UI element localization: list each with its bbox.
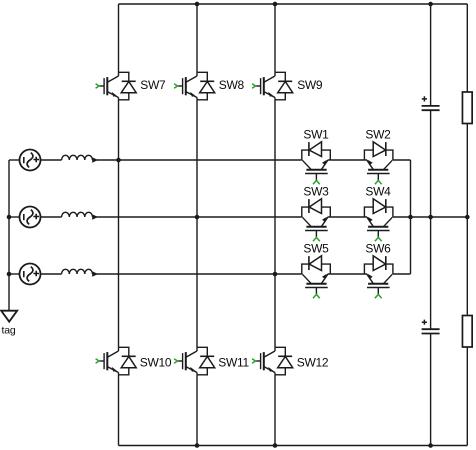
wire midpoint riser xyxy=(410,160,412,274)
wire leg2 bottom xyxy=(196,375,198,446)
node top bus / leg2 xyxy=(195,2,200,7)
wire SW6 to midpoint riser xyxy=(393,273,411,275)
node source rail / phase B xyxy=(7,215,12,220)
svg-text:SW7: SW7 xyxy=(140,78,166,92)
wire phase C xyxy=(93,273,302,275)
wire capacitor rail middle xyxy=(430,110,432,329)
wire midpoint row xyxy=(393,216,467,218)
transistor SW10 xyxy=(96,347,137,375)
node bottom bus / capacitor rail xyxy=(428,443,433,448)
wire bottom DC bus xyxy=(119,445,468,447)
transistor SW3 xyxy=(302,199,331,242)
wire right load rail middle xyxy=(466,124,468,316)
node midpoint / load rail xyxy=(465,215,470,220)
wire SW1 to SW2 xyxy=(330,159,364,161)
wire phase B to inductor xyxy=(41,216,62,218)
capacitor C1 xyxy=(422,96,440,110)
svg-text:SW2: SW2 xyxy=(365,128,391,142)
svg-text:SW1: SW1 xyxy=(303,128,329,142)
source VC xyxy=(20,264,41,285)
wire phase B source lead xyxy=(9,216,20,218)
svg-text:SW4: SW4 xyxy=(365,185,391,199)
inductor LC xyxy=(62,269,98,276)
wire phase B xyxy=(93,216,302,218)
wire top DC bus xyxy=(119,3,468,5)
wire leg2 middle xyxy=(196,100,198,347)
svg-text:SW3: SW3 xyxy=(303,185,329,199)
svg-text:SW6: SW6 xyxy=(365,241,391,255)
svg-text:SW12: SW12 xyxy=(297,355,329,369)
transistor SW2 xyxy=(364,142,393,185)
transistor SW8 xyxy=(174,72,215,100)
wire SW2 to midpoint riser xyxy=(393,159,411,161)
svg-text:SW10: SW10 xyxy=(140,355,172,369)
wire phase A to inductor xyxy=(41,159,62,161)
wire leg1 top xyxy=(118,4,120,72)
transistor SW5 xyxy=(302,256,331,298)
wire SW3 to SW4 xyxy=(330,216,364,218)
wire leg3 middle xyxy=(274,100,276,347)
wire leg1 middle xyxy=(118,100,120,347)
node phase C / leg3 xyxy=(273,272,278,277)
ground xyxy=(1,311,17,322)
svg-text:SW8: SW8 xyxy=(219,78,245,92)
svg-text:SW9: SW9 xyxy=(297,78,323,92)
wire leg3 top xyxy=(274,4,276,72)
resistor R1 xyxy=(462,92,472,124)
wire phase C source lead xyxy=(9,273,20,275)
wire phase A xyxy=(93,159,302,161)
transistor SW6 xyxy=(364,256,393,298)
capacitor C2 xyxy=(422,320,440,334)
node top bus / capacitor rail xyxy=(428,2,433,7)
node bottom bus / leg3 xyxy=(273,443,278,448)
wire phase A source lead xyxy=(9,159,20,161)
wire capacitor rail upper xyxy=(430,4,432,106)
wire right load rail upper xyxy=(466,4,468,92)
inductor LA xyxy=(62,155,98,162)
source VA xyxy=(20,150,41,171)
wire leg3 bottom xyxy=(274,375,276,446)
resistor R2 xyxy=(462,316,472,348)
node source rail / phase C xyxy=(7,272,12,277)
svg-text:tag: tag xyxy=(2,325,16,337)
wire leg2 top xyxy=(196,4,198,72)
wire phase C to inductor xyxy=(41,273,62,275)
wire right load rail lower xyxy=(466,347,468,446)
node midpoint / capacitor rail xyxy=(428,215,433,220)
wire SW5 to SW6 xyxy=(330,273,364,275)
wire source rail left xyxy=(8,160,10,311)
transistor SW1 xyxy=(302,142,331,185)
transistor SW9 xyxy=(252,72,293,100)
node phase B / leg2 xyxy=(195,215,200,220)
transistor SW4 xyxy=(364,199,393,242)
node top bus / leg3 xyxy=(273,2,278,7)
node bottom bus / leg2 xyxy=(195,443,200,448)
svg-text:SW5: SW5 xyxy=(303,241,329,255)
wire leg1 bottom xyxy=(118,375,120,446)
svg-text:SW11: SW11 xyxy=(218,355,249,369)
transistor SW7 xyxy=(96,72,137,100)
node phase A / leg1 xyxy=(116,158,121,163)
source VB xyxy=(20,207,41,228)
wire capacitor rail lower xyxy=(430,334,432,446)
transistor SW11 xyxy=(174,347,215,375)
node midpoint riser / midpoint row xyxy=(408,215,413,220)
transistor SW12 xyxy=(252,347,293,375)
inductor LB xyxy=(62,212,98,219)
